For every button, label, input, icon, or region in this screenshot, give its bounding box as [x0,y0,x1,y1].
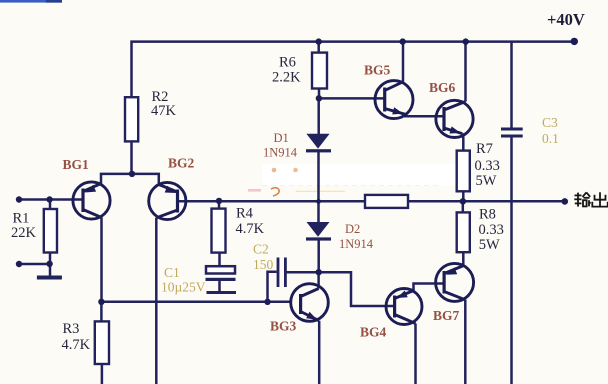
diode D2 [306,222,331,241]
capacitor C3 bottom plate [501,135,523,138]
node mid bus D column [316,199,321,204]
node BG5 collector rail [400,38,406,44]
svg-text:R6: R6 [279,55,296,71]
svg-text:2.2K: 2.2K [272,70,301,86]
capacitor C2 left plate [277,258,280,288]
label 输出 output (drawn glyphs) [574,192,607,206]
svg-text:BG5: BG5 [364,63,391,78]
transistor BG1 [73,182,110,219]
wire R1 bottom to ground [49,253,52,277]
svg-text:R7: R7 [476,141,493,157]
ground [37,276,62,280]
wire R7 to node [462,191,465,201]
wire lower input stub [19,263,50,266]
wire BG3 emitter down [318,321,321,384]
wire C3 bottom down [510,138,513,384]
wire BG5 base lead [319,97,385,100]
wire R4 to C1 [218,253,221,267]
wire junction to BG4 base [319,272,395,306]
svg-text:BG6: BG6 [429,80,456,95]
watermark residue marks [248,168,440,196]
transistor BG3 [291,284,329,322]
svg-text:1N914: 1N914 [339,237,374,251]
svg-text:R8: R8 [479,207,496,223]
svg-text:0.33: 0.33 [479,222,504,238]
svg-text:4.7K: 4.7K [62,337,91,353]
node rail right end [571,38,578,45]
wire R2 bottom to emitter join [130,141,133,174]
wire R8 to BG7 emitter [462,252,465,267]
wire D1 cathode to D2 anode [317,151,320,222]
wire node to D1 anode [317,98,320,134]
wire BG7 collector down [464,300,467,384]
wire BG2 base to mid bus [178,200,366,203]
svg-text:C1: C1 [164,265,180,280]
svg-text:BG4: BG4 [360,325,387,340]
wire D2 cathode to junction [317,239,320,272]
watermark erase box [262,164,470,186]
capacitor C2 right plate [284,258,287,288]
wire R6 top stub [317,42,320,53]
capacitor C3 top plate [501,128,523,131]
wire BG5 collector up [402,42,405,82]
capacitor C1 lower bar [207,291,237,294]
wire R3 bottom down [101,364,104,384]
wire input line to BG1 base [17,198,83,201]
node bottom-left bus left [98,299,104,305]
wire C3 top stub [510,42,513,128]
node R7 R8 junction [460,198,466,204]
wire C2 left branch [268,272,277,302]
wire R6 bottom to node [318,89,321,99]
svg-text:BG3: BG3 [270,319,297,334]
wire node to R8 [462,201,465,212]
svg-text:C2: C2 [253,242,269,257]
node input lower terminal [16,261,22,267]
node emitter join R2 [129,171,135,177]
transistor BG2 [149,182,186,219]
svg-text:C3: C3 [542,115,558,130]
node R6 top rail [316,38,322,44]
node R4 top [216,198,222,204]
wire BG5 emitter to BG6 base [405,114,444,116]
wire mid bus right of series resistor [408,200,565,203]
resistor R8 [457,212,470,252]
svg-text:150: 150 [253,257,274,272]
node BG6 collector rail [463,38,469,44]
wire emitter join horizontal [101,174,159,185]
resistor R6 [312,53,327,89]
resistor R4 [212,209,226,253]
svg-text:R4: R4 [236,206,254,222]
svg-text:D1: D1 [274,131,289,145]
svg-text:5W: 5W [479,237,500,253]
wire R3 top stub [100,302,103,322]
svg-text:10µ25V: 10µ25V [161,280,206,295]
svg-text:4.7K: 4.7K [236,221,265,237]
wire BG1 collector down [100,218,103,303]
wire BG2 collector down [155,218,158,384]
wire BG3 collector up [317,272,320,288]
transistor BG4 [386,289,422,325]
svg-text:BG7: BG7 [433,308,460,323]
svg-text:0.1: 0.1 [542,131,559,146]
svg-text:47K: 47K [151,103,177,119]
wire BG4 collector down [414,324,417,384]
capacitor C1 bottom plate [206,278,236,281]
resistor R7 [457,151,470,192]
wire BG6 emitter to R7 [462,134,463,151]
svg-text:+40V: +40V [547,10,585,29]
svg-text:R3: R3 [63,321,80,337]
title bar fragment top-left [0,0,62,3]
wire BG4 emitter to BG7 base lead [414,284,445,293]
resistor R1 [44,209,57,253]
resistor R2 [125,97,138,141]
wire R4 top stub [218,201,221,208]
svg-text:BG1: BG1 [63,157,90,172]
svg-text:D2: D2 [345,222,360,236]
node C2 bottom junction [264,299,270,305]
diode D1 [306,134,331,153]
node R1 top junction [46,196,52,202]
svg-text:5W: 5W [476,173,497,189]
resistor R5 series in mid bus [365,195,408,208]
transistor BG5 [375,81,413,119]
node input upper terminal [16,196,22,202]
capacitor C1 top plate [206,266,235,273]
wire C2 right to D-column junction [287,271,319,274]
svg-text:0.33: 0.33 [475,158,500,174]
svg-text:BG2: BG2 [168,156,195,171]
node R6 bottom / BG5 base [316,95,322,101]
wire R1 top stub [49,200,52,210]
svg-text:22K: 22K [11,225,37,241]
wire BG6 collector up [464,42,467,102]
wire C1 inner stub [218,281,221,291]
transistor BG7 [436,263,474,301]
wire bottom-left bus [101,301,290,304]
node output terminal [562,198,569,205]
transistor BG6 [436,100,473,137]
node D2 C2 BG3 junction [316,269,322,275]
resistor R3 [95,321,109,364]
node R1 bottom junction [46,261,52,267]
svg-text:1N914: 1N914 [263,146,298,160]
wire top supply rail [132,42,575,98]
